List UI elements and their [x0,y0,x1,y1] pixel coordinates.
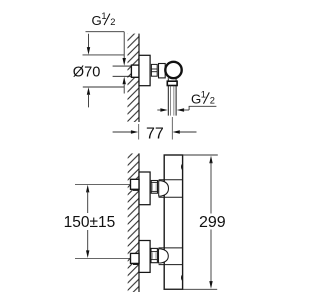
escutcheon (side) [139,55,150,85]
wall face line [138,34,140,122]
wall face extension line for 77 dim [138,124,140,140]
dia70 bottom extension line [83,86,125,88]
pipe dim lower arrow [123,77,126,85]
wall face line bottom [138,153,140,292]
top fitting hex nut [151,181,157,194]
svg-text:299: 299 [199,214,226,231]
dim 299 line + arrows [209,156,212,164]
top in-wall nut [131,179,140,189]
svg-text:1: 1 [201,90,206,100]
union nut small [151,64,157,76]
pipe neck under ball [167,78,169,81]
dim 299 extension lines [183,154,218,156]
thermostat body [164,155,182,289]
dia70 top arrow [88,34,90,48]
union nut large [159,64,166,78]
svg-text:1: 1 [101,11,106,21]
top fitting cone [159,181,169,196]
knob arc top [181,164,183,170]
svg-text:2: 2 [110,17,115,27]
dim 150+-15 line + arrows [86,185,89,193]
top escutcheon [139,172,150,205]
bottom in-wall nut [131,253,140,263]
svg-text:G: G [92,13,102,28]
dia70 top extension line [83,54,125,56]
dim 77 [113,131,132,133]
wall hatch bottom [128,153,139,292]
G1/2 right dim arrows [157,109,161,111]
pipe centerline extension [171,117,173,140]
knob arc bottom [181,275,183,281]
bottom fitting cone [159,249,169,263]
dia70 bottom arrow [87,87,90,95]
collar ring [167,81,177,85]
G1/2 top leader underline [86,31,125,33]
down pipe [167,86,169,116]
ball joint [165,62,181,78]
bottom fitting boss lines [159,247,183,249]
G1/2 leader vertical + arrow [123,32,125,58]
top fitting boss lines [159,179,183,181]
dim 150+-15 extension lines [75,183,130,185]
in-wall connection nut [131,65,139,77]
G1/2 right underline [189,105,217,107]
bottom fitting hex nut [151,248,157,262]
svg-text:Ø70: Ø70 [73,64,101,80]
svg-text:150±15: 150±15 [64,214,116,231]
svg-text:2: 2 [210,96,215,106]
wall hatch [128,34,140,122]
svg-text:77: 77 [146,125,164,142]
in-wall supply pipe [113,65,132,67]
bottom escutcheon [139,241,150,273]
